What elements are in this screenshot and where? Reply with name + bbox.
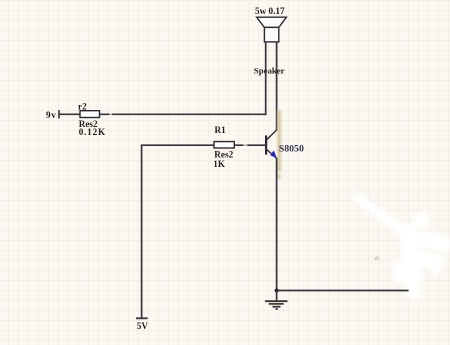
svg-text:Speaker: Speaker — [254, 66, 285, 76]
wire R1 left — [142, 144, 214, 146]
wire 9v to r2 — [59, 113, 81, 115]
svg-text:9v: 9v — [46, 110, 56, 120]
svg-text:R1: R1 — [215, 125, 227, 135]
resistor r2 — [80, 111, 100, 118]
highlight stripe — [277, 110, 281, 179]
transistor Q1 S8050 — [266, 130, 277, 159]
svg-text:S8050: S8050 — [279, 144, 304, 155]
speaker pin 1 wire — [265, 42, 267, 115]
svg-text:5V: 5V — [137, 321, 149, 331]
resistor R1 — [214, 142, 234, 148]
speaker pin 2 wire — [276, 42, 278, 130]
wire junction to ground — [276, 291, 278, 302]
watermark pencil mark — [374, 256, 380, 260]
wire right — [277, 290, 409, 292]
port 9v tick — [58, 110, 60, 119]
wire gap artifact near r2 — [109, 113, 112, 116]
junction — [275, 289, 279, 293]
emitter wire — [276, 158, 278, 291]
wire gap artifact near R1 — [243, 144, 247, 147]
svg-text:r2: r2 — [78, 101, 87, 111]
ground — [265, 301, 288, 309]
wire r2 to speaker pin1 — [100, 113, 267, 115]
svg-text:0.12K: 0.12K — [79, 127, 106, 137]
svg-text:5w 0.17: 5w 0.17 — [255, 6, 285, 16]
svg-text:1K: 1K — [213, 159, 226, 169]
speaker LS1 — [257, 17, 287, 42]
power port 5V bar — [136, 317, 148, 319]
wire down to 5V — [141, 144, 143, 318]
wire R1 to base — [234, 144, 265, 146]
svg-text:Res2: Res2 — [214, 150, 233, 160]
watermark swoosh — [350, 192, 450, 301]
